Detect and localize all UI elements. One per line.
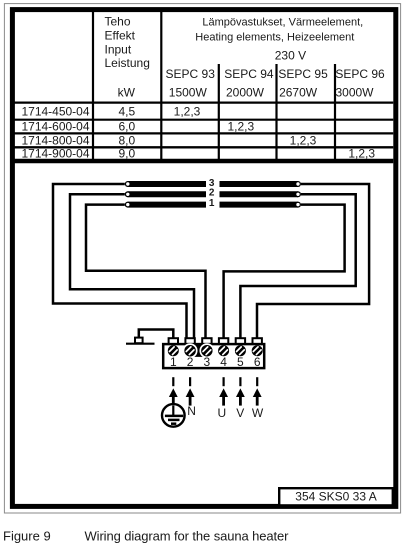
svg-text:3000W: 3000W [335, 85, 374, 99]
terminal tab 5 [236, 338, 245, 344]
supply lead dash terminal 4 [223, 377, 225, 386]
supply lead dash terminal 5 [239, 377, 241, 386]
svg-text:Figure 9: Figure 9 [3, 528, 51, 543]
table row line 3 [14, 146, 393, 148]
svg-text:354 SKS0 33 A: 354 SKS0 33 A [295, 490, 376, 504]
wire chassis ground to terminal 1 tab [139, 330, 174, 340]
svg-text:W: W [252, 406, 264, 420]
chassis ground symbol [126, 338, 155, 344]
protective earth symbol [162, 404, 185, 427]
svg-text:2670W: 2670W [279, 85, 318, 99]
svg-text:6,0: 6,0 [118, 119, 135, 133]
svg-text:1714-900-04: 1714-900-04 [21, 146, 89, 160]
wire element 1 right to terminal 4 [224, 205, 345, 344]
terminal tab 2 [185, 338, 194, 344]
screw terminal 5 [233, 343, 249, 359]
svg-text:Teho: Teho [105, 15, 131, 29]
wire element 1 left to terminal 3 [86, 205, 206, 344]
svg-text:U: U [217, 406, 226, 420]
wire element 2 right to terminal 5 [240, 194, 355, 344]
table vertical line col1/col2 [92, 12, 94, 160]
table bottom line [14, 159, 393, 163]
arrow into terminal 1 (earth) [169, 388, 178, 403]
svg-text:V: V [236, 406, 244, 420]
svg-text:2: 2 [209, 188, 215, 199]
drawing number box 354 SKS0 33 A [279, 488, 393, 505]
table vertical separator SEPC93/94 [218, 64, 220, 160]
svg-text:4,5: 4,5 [118, 105, 135, 119]
screw terminal 2 [182, 343, 198, 359]
table row line 1 [14, 119, 393, 121]
svg-text:SEPC 95: SEPC 95 [278, 67, 328, 81]
svg-text:kW: kW [118, 85, 136, 99]
svg-text:Lämpövastukset, Värmeelement,: Lämpövastukset, Värmeelement, [202, 17, 363, 29]
svg-text:SEPC 96: SEPC 96 [335, 67, 385, 81]
heating element 1 (bottom) right half [220, 202, 302, 208]
heating element 3 (top) right half [220, 181, 302, 187]
svg-text:9,0: 9,0 [118, 146, 135, 160]
table row line 2 [14, 132, 393, 134]
svg-text:Effekt: Effekt [105, 28, 136, 42]
svg-text:1: 1 [209, 198, 215, 209]
table vertical separator SEPC95/96 [334, 64, 336, 160]
svg-text:3: 3 [204, 355, 211, 369]
arrow into terminal 6 (W) [253, 388, 262, 405]
svg-text:Wiring diagram for the sauna h: Wiring diagram for the sauna heater [85, 528, 290, 543]
wire element 3 left to terminal 2 [53, 184, 187, 344]
svg-text:1,2,3: 1,2,3 [227, 119, 254, 133]
svg-text:1,2,3: 1,2,3 [290, 134, 317, 148]
supply lead dash terminal 6 [256, 377, 258, 386]
svg-text:Leistung: Leistung [105, 56, 150, 70]
svg-text:N: N [187, 404, 196, 418]
wire element 3 right to terminal 6 [257, 184, 369, 344]
screw terminal 6 [249, 343, 265, 359]
svg-text:1: 1 [170, 355, 177, 369]
table vertical line col2/elements [160, 12, 162, 160]
terminal tab 6 [253, 338, 262, 344]
arrow into terminal 2 (N) [186, 388, 195, 405]
svg-text:1714-450-04: 1714-450-04 [21, 105, 89, 119]
svg-text:5: 5 [237, 355, 244, 369]
svg-text:4: 4 [220, 355, 227, 369]
wire element 2 left to terminal 2 [70, 194, 194, 344]
terminal tab 3 [202, 338, 211, 344]
svg-text:1,2,3: 1,2,3 [174, 105, 201, 119]
supply lead dash terminal 2 [189, 377, 191, 386]
table vertical separator SEPC94/95 [275, 64, 277, 160]
screw terminal 3 [199, 343, 215, 359]
heating element 3 (top) left half [125, 181, 206, 187]
svg-text:1714-600-04: 1714-600-04 [21, 119, 89, 133]
terminal tab 4 [219, 338, 228, 344]
svg-text:SEPC 94: SEPC 94 [224, 67, 274, 81]
svg-text:Input: Input [105, 42, 132, 56]
terminal tab 1 [169, 338, 178, 344]
screw terminal 1 [166, 343, 182, 359]
heating element 1 (bottom) left half [125, 202, 206, 208]
svg-text:SEPC 93: SEPC 93 [166, 67, 216, 81]
terminal block body [163, 344, 264, 368]
table header underline [14, 101, 393, 103]
arrow into terminal 4 (U) [219, 388, 228, 405]
svg-text:2: 2 [187, 355, 194, 369]
jumper link terminals 2-3 [183, 344, 213, 357]
svg-text:1,2,3: 1,2,3 [348, 146, 375, 160]
svg-text:230 V: 230 V [275, 49, 306, 63]
heating element 2 (middle) left half [125, 191, 206, 197]
svg-text:1500W: 1500W [169, 85, 208, 99]
screw terminal 4 [216, 343, 232, 359]
heating element 2 (middle) right half [220, 191, 302, 197]
svg-text:2000W: 2000W [226, 85, 265, 99]
supply lead dash terminal 1 [172, 377, 174, 386]
arrow into terminal 5 (V) [236, 388, 245, 405]
svg-text:6: 6 [254, 355, 261, 369]
svg-text:Heating elements, Heizeelement: Heating elements, Heizeelement [195, 31, 354, 43]
